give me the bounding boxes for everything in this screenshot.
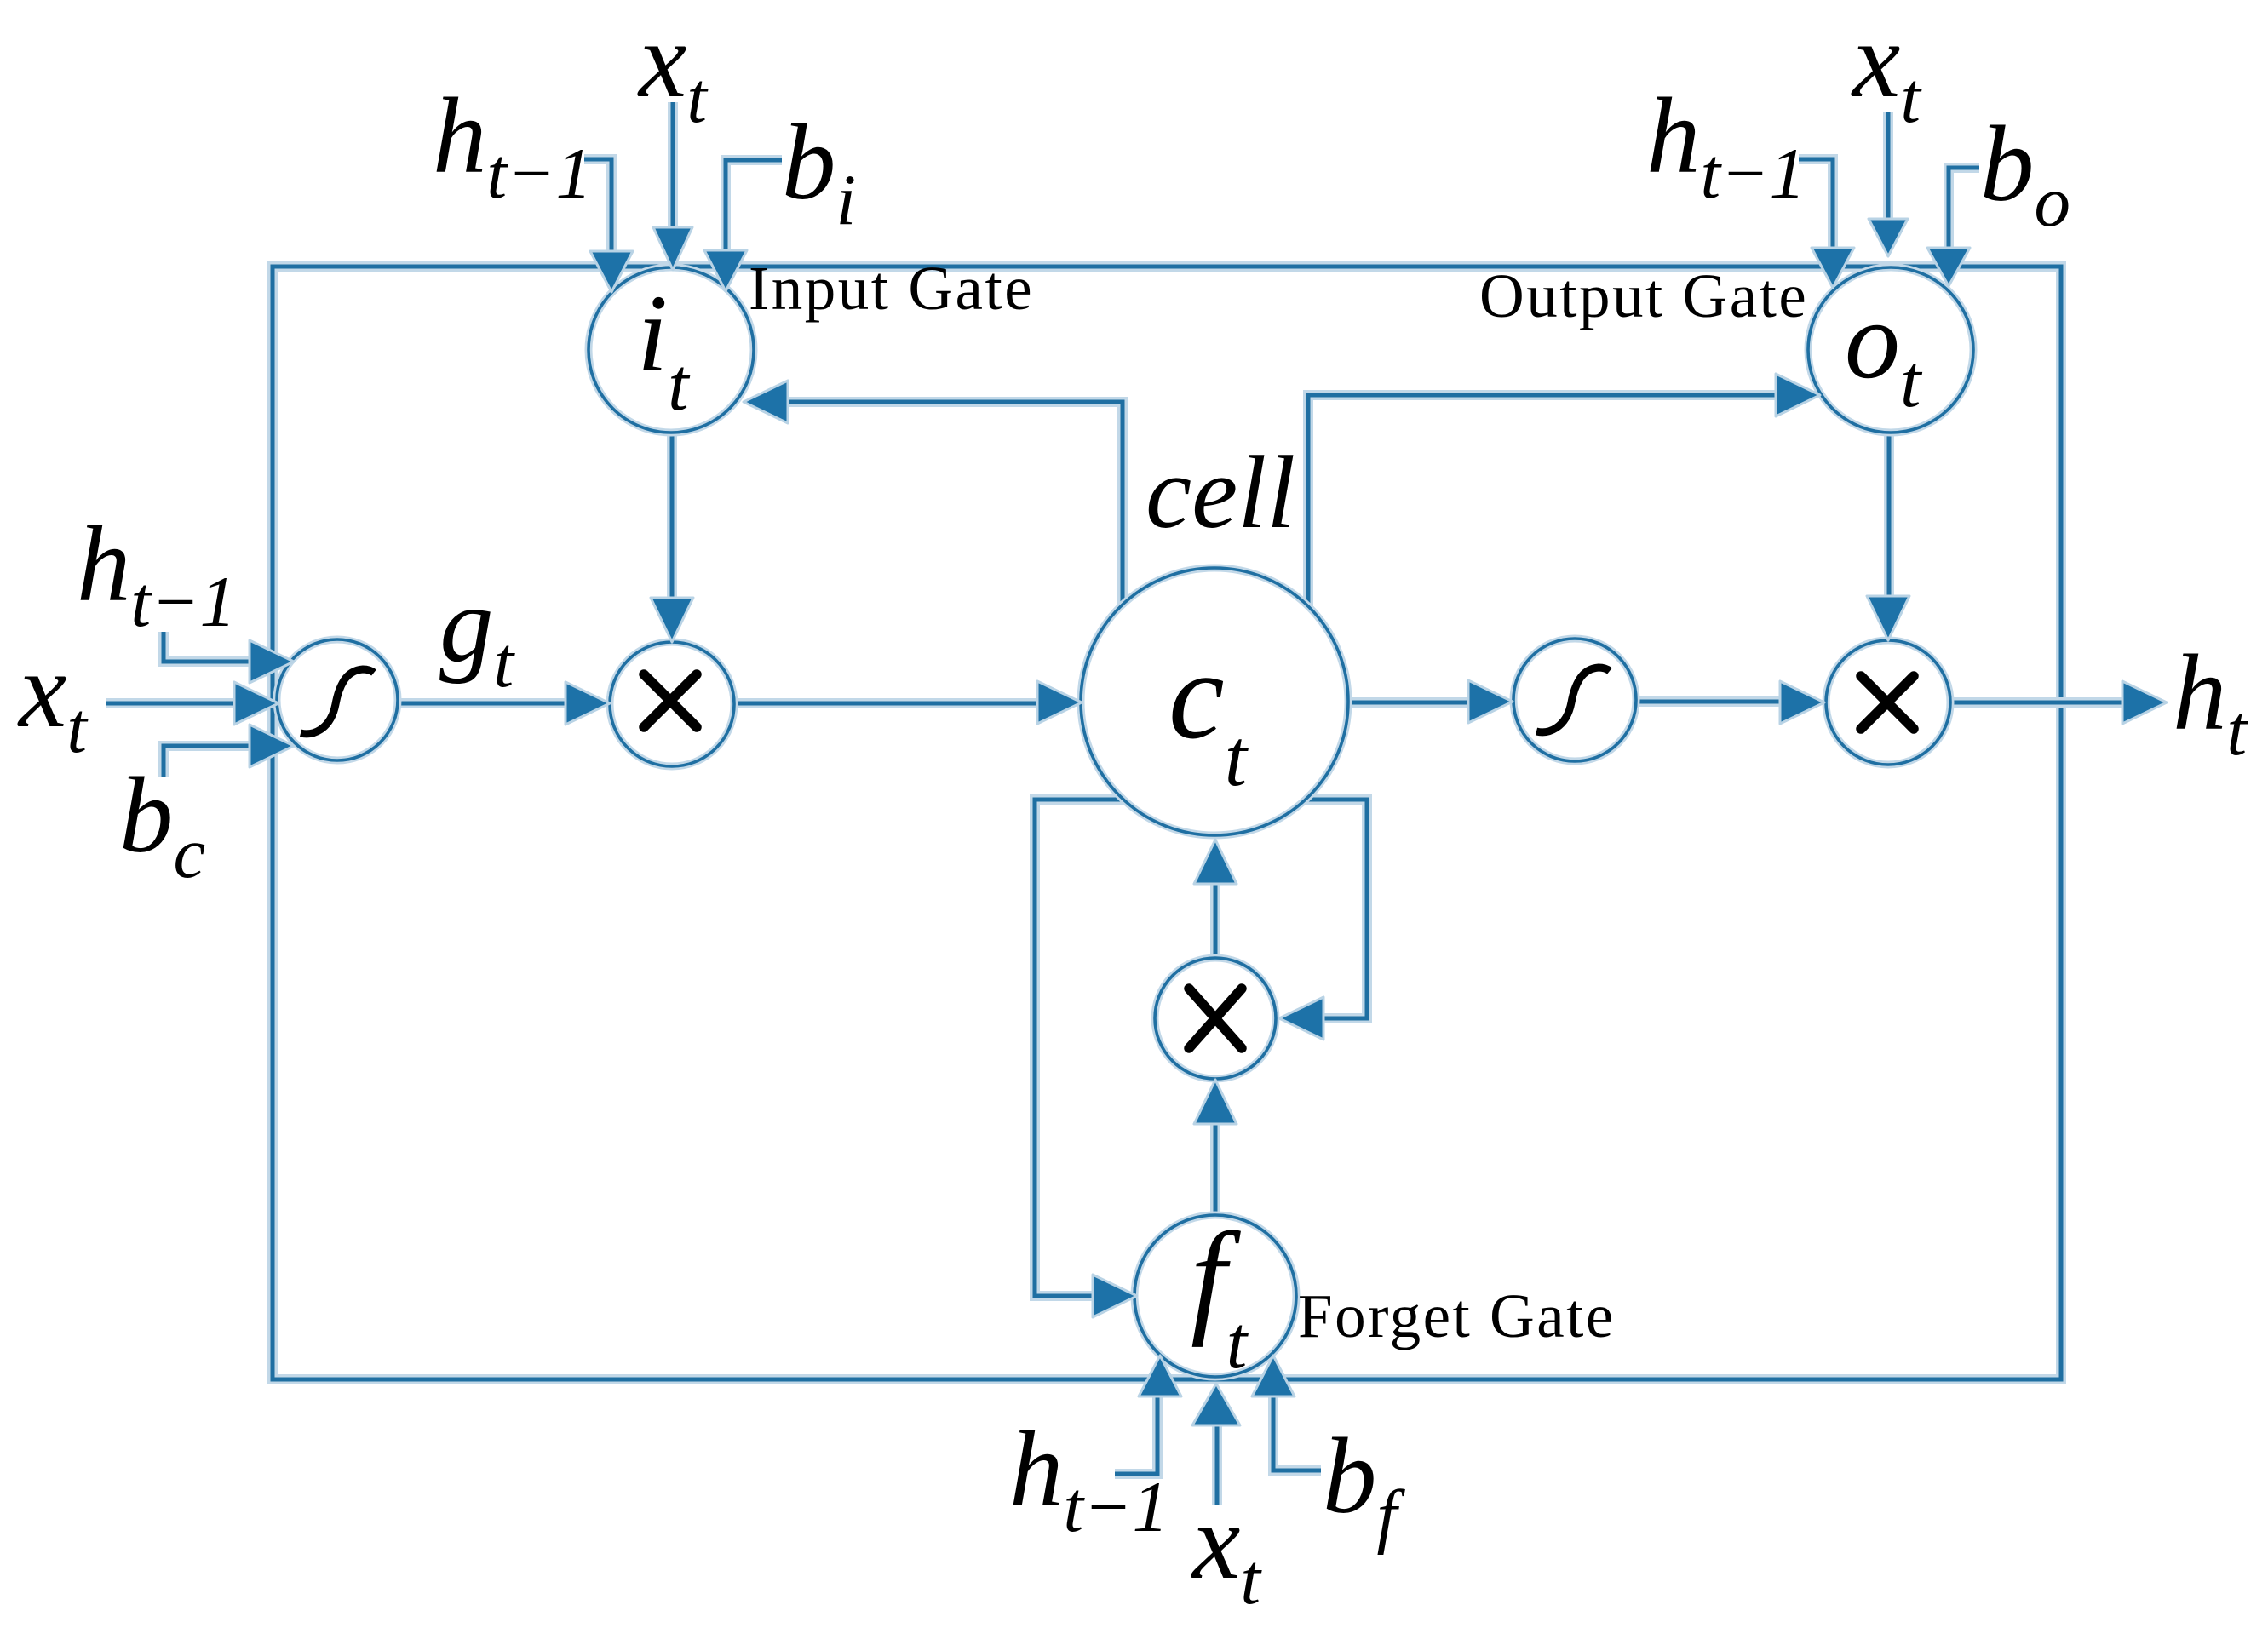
wire o_t to output-multiply vertical	[1884, 433, 1894, 596]
arrowhead b_i into i_t	[704, 250, 747, 291]
arrowhead into cell	[1037, 681, 1082, 724]
arrowhead o_t into output-multiply	[1867, 596, 1909, 640]
wire cell-top left branch to i_t	[788, 402, 1123, 606]
arrowhead forget-multiply into cell	[1194, 840, 1237, 884]
wire x_t input line to sigmoid-g	[106, 698, 234, 708]
wire cell block boundary box	[273, 267, 2061, 1379]
arrowhead cell into sigmoid-out	[1468, 680, 1513, 723]
wire x_t input drop to i_t	[668, 102, 678, 229]
wire i_t to input-multiply vertical	[667, 433, 677, 598]
wire f_t to forget-multiply vertical	[1210, 1124, 1220, 1214]
output gate o_t circle	[1808, 267, 1973, 433]
forget-multiply circle	[1155, 958, 1276, 1079]
input gate i_t circle	[589, 267, 754, 433]
wire h_t-1 tick to f_t	[1115, 1396, 1157, 1474]
input-multiply multiply cross	[644, 674, 697, 727]
wire h_t-1 tick to sigmoid-g	[164, 632, 250, 662]
arrowhead h_t-1 into i_t	[590, 251, 633, 292]
arrowhead h_t output arrow	[2122, 681, 2167, 724]
output-multiply multiply cross	[1861, 676, 1914, 729]
sigmoid-g circle	[277, 639, 398, 760]
wire x_t input drop to o_t	[1883, 112, 1893, 221]
arrowhead cell branch into i_t	[744, 381, 788, 423]
svg-text:cell: cell	[1145, 435, 1295, 550]
arrowhead b_c into sigmoid-g	[250, 725, 294, 767]
cell state c_t circle	[1081, 568, 1348, 835]
wire b_i tick to i_t	[726, 160, 782, 251]
arrowhead loop into f_t	[1093, 1275, 1137, 1317]
arrowhead f_t into forget-multiply	[1194, 1080, 1237, 1124]
input-multiply circle	[610, 642, 734, 766]
svg-text:Input Gate: Input Gate	[749, 254, 1034, 323]
arrowhead b_f into f_t	[1252, 1356, 1295, 1396]
svg-text:Output Gate: Output Gate	[1479, 261, 1808, 330]
arrowhead h_t-1 into sigmoid-g	[250, 640, 294, 683]
wire b_f tick to f_t	[1273, 1397, 1321, 1470]
arrowhead x_t into sigmoid-g	[234, 682, 278, 725]
wire h_t-1 tick to o_t	[1799, 159, 1833, 249]
arrowhead b_o into o_t	[1927, 248, 1970, 286]
arrowhead i_t into input-multiply	[651, 598, 693, 642]
wire b_o tick to o_t	[1949, 168, 1979, 249]
output-multiply circle	[1826, 640, 1950, 765]
sigmoid-out circle	[1513, 639, 1636, 761]
arrowhead x_t into f_t	[1192, 1384, 1240, 1425]
wire input-multiply to cell	[734, 698, 1037, 708]
wire h_t-1 tick to i_t	[584, 159, 611, 252]
arrowhead loop into forget-multiply	[1279, 997, 1323, 1040]
wire x_t input rise to f_t	[1212, 1424, 1222, 1505]
arrowhead h_t-1 into f_t	[1139, 1356, 1181, 1396]
forget gate f_t circle	[1134, 1215, 1296, 1377]
wire cell bottom-left loop to f_t	[1035, 800, 1123, 1296]
wire output-multiply to h_t output	[1950, 697, 2122, 708]
arrowhead g_t into input-multiply	[566, 682, 610, 725]
svg-text:Forget Gate: Forget Gate	[1298, 1281, 1616, 1350]
sigmoid-out sigmoid curve	[1536, 668, 1610, 732]
wire cell bottom-right loop to forget-multiply	[1306, 800, 1367, 1018]
wire cell to sigmoid-out	[1348, 697, 1468, 708]
wire forget-multiply to cell vertical	[1210, 884, 1220, 958]
wire b_c tick to sigmoid-g	[164, 746, 250, 777]
wire sigmoid-out to output-multiply	[1636, 696, 1780, 707]
sigmoid-g sigmoid curve	[301, 669, 374, 734]
arrowhead sigmoid-out into output-multiply	[1780, 681, 1824, 724]
forget-multiply multiply cross	[1189, 989, 1242, 1048]
arrowhead cell branch into o_t	[1776, 374, 1820, 416]
arrowhead x_t into i_t	[653, 227, 692, 270]
wire cell-top right branch to o_t	[1308, 395, 1776, 606]
wire sigmoid-g to input-multiply (g_t)	[398, 698, 566, 708]
arrowhead h_t-1 into o_t	[1812, 248, 1854, 288]
arrowhead x_t into o_t	[1869, 219, 1908, 256]
